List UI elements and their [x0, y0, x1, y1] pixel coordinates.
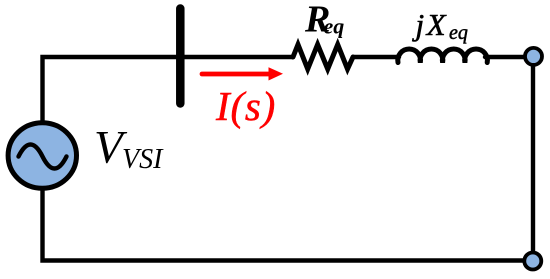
- svg-text:jX: jX: [412, 7, 449, 42]
- wire inductor to top-right node: [485, 55, 524, 59]
- node bottom-right terminal: [524, 253, 541, 270]
- AC voltage source VVSI circle: [8, 123, 76, 189]
- bus bar: [176, 9, 185, 104]
- svg-text:eq: eq: [324, 13, 345, 38]
- svg-text:eq: eq: [449, 22, 468, 44]
- node top-right terminal: [525, 48, 542, 65]
- wire resistor to inductor: [353, 55, 399, 59]
- wire bottom loop: source bottom to bottom-right node: [43, 189, 534, 261]
- wire top-left: source top to resistor: [43, 57, 294, 123]
- svg-text:VSI: VSI: [122, 144, 164, 175]
- resistor Req zigzag: [293, 45, 353, 70]
- sine wave inside source: [19, 145, 67, 169]
- wire right vertical: top node to bottom node: [531, 57, 535, 261]
- inductor jXeq coils: [398, 49, 488, 62]
- svg-text:I(s): I(s): [215, 83, 276, 129]
- current arrow I(s): [202, 72, 270, 77]
